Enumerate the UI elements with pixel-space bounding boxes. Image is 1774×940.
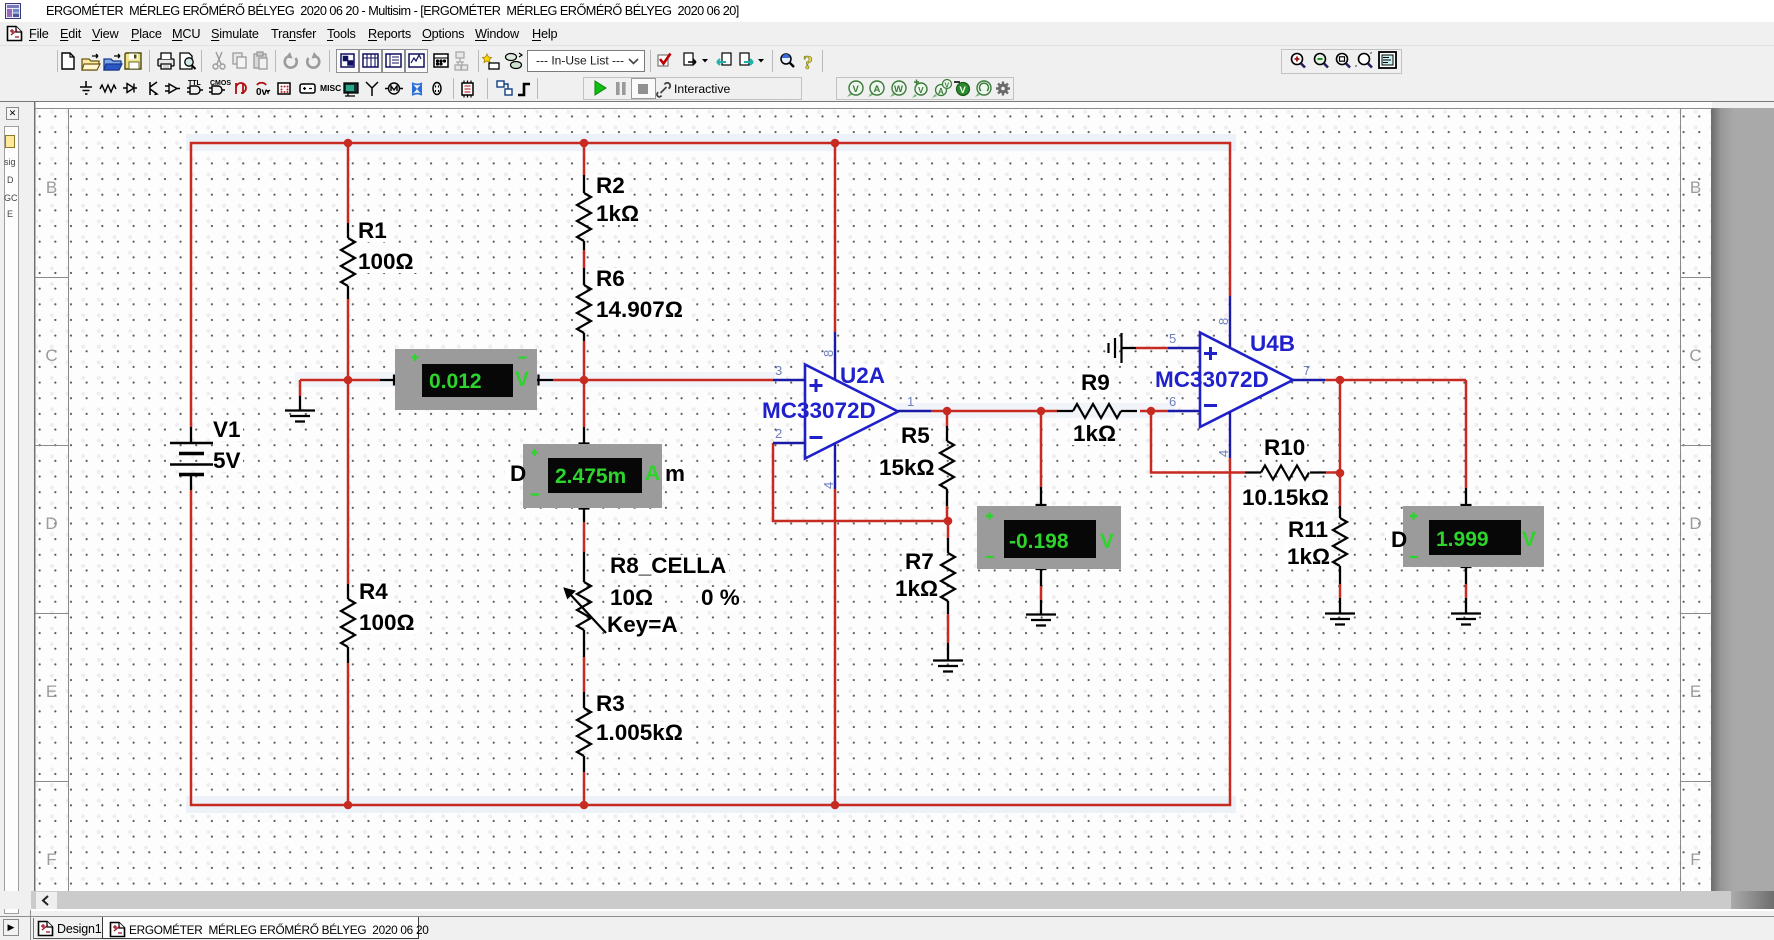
svg-text:R8_CELLA: R8_CELLA	[610, 553, 726, 578]
svg-text:1kΩ: 1kΩ	[596, 201, 639, 226]
junction top rail R2	[580, 139, 589, 148]
svg-text:R4: R4	[359, 579, 388, 604]
svg-text:R6: R6	[596, 266, 625, 291]
voltmeter XMM3 -0.198 V	[977, 487, 1121, 586]
wire node C to R7	[947, 521, 950, 538]
wire pin7 node down to R11	[1339, 380, 1342, 506]
wire R6 to node B	[583, 341, 586, 380]
icon place resistor	[100, 85, 116, 92]
battery V1	[170, 427, 213, 490]
svg-text:8: 8	[1216, 318, 1231, 325]
wire R9 to U4B pin6	[1140, 410, 1168, 413]
svg-text:1.999: 1.999	[1436, 528, 1489, 551]
svg-text:V: V	[945, 83, 950, 90]
icon help	[803, 52, 813, 74]
wire R5 bottom to node C	[946, 506, 949, 521]
wire U2A pin4 supply	[834, 489, 837, 805]
icon place analog	[165, 84, 180, 93]
wire node A to R4	[347, 380, 350, 584]
junction voltmeter XMM3 tap	[1037, 407, 1046, 416]
horizontal scrollbar	[0, 891, 1774, 909]
icon forward annotate	[740, 53, 764, 65]
resistor R1	[341, 218, 414, 299]
icon place TTL	[187, 80, 203, 94]
net highlight band input wire	[295, 372, 775, 387]
svg-text:Interactive: Interactive	[674, 82, 730, 96]
icon place connectors	[433, 83, 441, 95]
junction node A R1-R4-voltmeter	[344, 376, 353, 385]
wire top power rail	[191, 143, 1230, 427]
sim controls band	[584, 78, 802, 100]
wire voltmeter XMM3 bottom	[1040, 586, 1043, 600]
label V1 5V	[213, 417, 241, 473]
ground below voltmeter XMM4	[1451, 598, 1481, 625]
resistor R11	[1287, 506, 1347, 584]
probe V+	[912, 80, 927, 99]
svg-text:R10: R10	[1264, 435, 1305, 460]
resistor R3	[577, 691, 683, 772]
svg-text:R7: R7	[905, 549, 934, 574]
resistor R4	[341, 579, 415, 663]
icon copy disabled	[233, 53, 246, 68]
svg-text:?: ?	[803, 52, 813, 74]
icon place indicator	[278, 83, 290, 94]
icon place mixed	[256, 83, 270, 98]
wire R11 bottom	[1339, 584, 1342, 598]
svg-text:5V: 5V	[213, 448, 241, 473]
svg-text:1.005kΩ: 1.005kΩ	[596, 720, 683, 745]
svg-text:V: V	[960, 85, 967, 96]
toolbar row 2	[0, 76, 1774, 101]
icon spreadsheet view	[363, 54, 378, 67]
wire R4 bottom	[347, 663, 350, 805]
wire U4B pin5 to ground	[1136, 347, 1168, 350]
probe V	[847, 81, 863, 97]
wire R10 right lead	[1326, 471, 1340, 474]
svg-text:MISC: MISC	[320, 83, 341, 93]
icon print	[158, 53, 174, 69]
icon paste disabled	[254, 52, 267, 69]
svg-text:m: m	[665, 461, 685, 486]
sheet frame	[34, 102, 35, 891]
U4B pin4 stub	[1216, 412, 1231, 458]
icon place source	[80, 81, 92, 94]
wire R7 to ground	[947, 614, 950, 643]
svg-text:4: 4	[1216, 450, 1231, 457]
icon hierarchy disabled	[455, 52, 468, 70]
icon place misc digital	[236, 83, 246, 94]
wire U2A pin1 output	[931, 410, 1058, 413]
icon ERC	[658, 54, 671, 67]
icon zoom fit	[1355, 52, 1372, 68]
zoom toolbar box	[1282, 50, 1402, 74]
probe W	[890, 81, 906, 97]
icon print preview	[180, 53, 196, 69]
wire voltmeter XMM4 top	[1465, 380, 1468, 488]
icon zoom area	[1337, 54, 1351, 68]
svg-text:R9: R9	[1081, 370, 1110, 395]
icon interactive wrench	[657, 83, 670, 97]
label Interactive	[674, 82, 730, 96]
svg-text:V: V	[515, 368, 529, 391]
icon database manager	[506, 53, 523, 69]
wire ammeter to R8	[583, 522, 586, 552]
wire R1 top	[347, 143, 350, 223]
svg-text:8: 8	[821, 350, 836, 357]
svg-text:D: D	[510, 461, 526, 486]
probe A	[868, 81, 884, 97]
junction U4B pin6	[1147, 407, 1156, 416]
icon full screen	[1379, 52, 1396, 68]
svg-text:0.012: 0.012	[429, 370, 482, 393]
svg-text:0v: 0v	[256, 87, 268, 98]
U2A pin1 stub	[898, 394, 931, 411]
icon place misc	[320, 83, 341, 93]
icon create component	[483, 54, 500, 69]
icon place RF	[366, 82, 378, 96]
junction bottom rail R3	[580, 801, 589, 810]
wire U2A pin2 feedback	[773, 443, 948, 521]
icon play	[595, 81, 606, 95]
wire voltmeter XMM1 to op-amp pin3	[553, 379, 773, 382]
ground near voltmeter XMM1	[285, 396, 315, 422]
icon save	[125, 53, 141, 69]
icon postprocessor	[434, 54, 448, 67]
svg-text:V: V	[1522, 528, 1536, 551]
svg-text:1kΩ: 1kΩ	[1287, 544, 1330, 569]
icon place MCU	[462, 81, 473, 98]
icon find	[781, 54, 794, 67]
ammeter XMM2 2.475m A	[510, 427, 685, 522]
U2A pin2 stub	[773, 426, 805, 443]
net highlight band output wire	[895, 403, 1175, 418]
svg-text:R1: R1	[358, 218, 387, 243]
ground below voltmeter XMM3	[1026, 600, 1056, 626]
svg-text:100Ω: 100Ω	[358, 249, 414, 274]
menu bar	[0, 22, 1774, 46]
svg-text:MC33072D: MC33072D	[1155, 367, 1269, 392]
icon back annotate	[717, 53, 731, 65]
resistor R10	[1242, 435, 1329, 510]
voltmeter XMM1 0.012 V	[380, 349, 553, 410]
toolbar row 1	[0, 46, 1774, 76]
icon place power	[300, 84, 315, 93]
icon place diode	[123, 84, 137, 93]
probe settings gear	[996, 82, 1010, 96]
icon grapher	[409, 54, 424, 67]
U2A pin4 stub	[821, 444, 836, 489]
wire ground stub to voltmeter XMM1	[300, 380, 380, 396]
icon design toolbox	[341, 54, 354, 67]
icon undo disabled	[285, 52, 297, 68]
svg-text:R11: R11	[1288, 517, 1328, 542]
icon open file	[82, 54, 100, 70]
wire R8 to R3	[583, 657, 586, 692]
icon place peripherals	[344, 83, 358, 96]
svg-text:15kΩ: 15kΩ	[879, 455, 935, 480]
svg-text:V: V	[853, 84, 860, 95]
icon new file	[62, 53, 74, 69]
svg-text:6: 6	[1169, 394, 1176, 409]
svg-text:4: 4	[821, 482, 836, 489]
potentiometer R8_CELLA	[564, 552, 740, 657]
resistor R5	[879, 423, 954, 506]
U2A pin8 stub	[821, 332, 836, 379]
icon NI components	[412, 83, 422, 95]
svg-text:A: A	[645, 462, 660, 485]
wire voltmeter XMM3 top	[1040, 411, 1043, 487]
wire U4B pin7 output	[1325, 379, 1466, 382]
net highlight band top rail	[186, 134, 1236, 151]
resistor R2	[577, 173, 639, 250]
icon pause	[616, 82, 626, 95]
svg-text:R5: R5	[901, 423, 930, 448]
svg-text:--- In-Use List ---: --- In-Use List ---	[536, 54, 624, 68]
svg-text:V: V	[1100, 530, 1114, 553]
svg-text:W: W	[894, 84, 903, 95]
junction bottom rail R4	[344, 801, 353, 810]
wire R3 bottom	[583, 772, 586, 805]
junction node C R5-R7 feedback	[944, 517, 953, 526]
wire R2 to R6	[583, 250, 586, 268]
svg-text:10.15kΩ: 10.15kΩ	[1242, 485, 1329, 510]
U4B pin8 stub	[1216, 296, 1231, 347]
probe AV	[932, 80, 952, 99]
op-amp U2A	[762, 363, 898, 459]
junction top rail U2A pin8	[831, 139, 840, 148]
svg-text:D: D	[1391, 527, 1407, 552]
resistor R9	[1057, 370, 1137, 446]
resistor R7	[895, 538, 955, 614]
wire U2A pin8 supply	[834, 143, 837, 332]
In-Use List combo	[528, 51, 645, 72]
probes band	[837, 78, 1014, 100]
separators row2	[454, 78, 538, 99]
probe phase	[975, 81, 991, 97]
left collapsed design toolbox panel	[0, 102, 34, 916]
wire bottom rail	[191, 458, 1230, 805]
svg-text:100Ω: 100Ω	[359, 610, 415, 635]
icon hierarchical block	[497, 81, 512, 95]
junction R10-R11	[1336, 469, 1345, 478]
wire node B to ammeter	[583, 380, 586, 427]
icon export doc arrow	[684, 53, 708, 65]
svg-text:-0.198: -0.198	[1009, 530, 1069, 553]
svg-text:14.907Ω: 14.907Ω	[596, 297, 683, 322]
icon zoom in	[1292, 54, 1306, 68]
svg-text:A: A	[938, 87, 944, 96]
U2A pin3 stub	[773, 363, 805, 380]
svg-text:1: 1	[907, 394, 914, 409]
svg-text:V: V	[918, 85, 924, 95]
icon redo disabled	[307, 52, 319, 68]
junction node B R6-ammeter	[580, 376, 589, 385]
svg-text:0 %: 0 %	[701, 585, 740, 610]
wire R5 top lead	[946, 411, 949, 426]
net highlight band bottom rail	[186, 796, 1236, 813]
wire R1 to node A	[347, 299, 350, 380]
ground sideways at U4B pin5	[1109, 333, 1137, 363]
svg-text:3: 3	[775, 363, 782, 378]
svg-text:1kΩ: 1kΩ	[895, 576, 938, 601]
svg-text:R2: R2	[596, 173, 625, 198]
separators row1	[58, 50, 823, 72]
svg-text:2: 2	[775, 426, 782, 441]
svg-text:Key=A: Key=A	[607, 612, 678, 637]
ground below R7	[933, 643, 963, 672]
op-amp U4B	[1155, 331, 1295, 427]
U4B pin6 stub	[1168, 394, 1200, 411]
junction U4B output	[1336, 376, 1345, 385]
U4B pin7 stub	[1293, 363, 1325, 380]
resistor R6	[577, 266, 683, 341]
ground below R11	[1325, 598, 1355, 625]
icon cut disabled	[213, 52, 225, 69]
probe V dark	[954, 82, 970, 96]
svg-text:5: 5	[1169, 331, 1176, 346]
icon bus	[518, 84, 530, 95]
voltmeter XMM4 1.999 V	[1391, 488, 1544, 584]
icon place CMOS	[209, 80, 231, 94]
junction U2A output R5	[943, 407, 952, 416]
label halos	[210, 175, 1406, 744]
svg-text:10Ω: 10Ω	[610, 585, 653, 610]
icon place transistor	[150, 82, 157, 95]
svg-text:7: 7	[1303, 363, 1310, 378]
icon zoom out	[1315, 54, 1329, 68]
view buttons pressed boxes	[337, 50, 428, 73]
svg-text:V1: V1	[213, 417, 241, 442]
svg-text:U4B: U4B	[1250, 331, 1295, 356]
U4B pin5 stub	[1168, 331, 1200, 348]
wire pin6 feedback to R10	[1151, 411, 1245, 473]
svg-text:MC33072D: MC33072D	[762, 398, 876, 423]
svg-text:A: A	[874, 84, 881, 95]
title bar	[0, 0, 1774, 22]
icon place electromechanical	[385, 83, 403, 94]
wire R2 top	[583, 143, 586, 175]
junction top rail R1	[344, 139, 353, 148]
svg-text:2.475m: 2.475m	[555, 465, 626, 488]
svg-text:1kΩ: 1kΩ	[1073, 421, 1116, 446]
wire voltmeter XMM4 bottom	[1465, 584, 1468, 598]
icon stop pressed box	[632, 79, 656, 99]
svg-text:U2A: U2A	[840, 363, 885, 388]
icon netlist viewer	[386, 54, 401, 67]
svg-text:R3: R3	[596, 691, 625, 716]
tab bar	[0, 916, 1774, 940]
icon open sample	[104, 54, 122, 70]
junction bottom rail U2A pin4	[831, 801, 840, 810]
